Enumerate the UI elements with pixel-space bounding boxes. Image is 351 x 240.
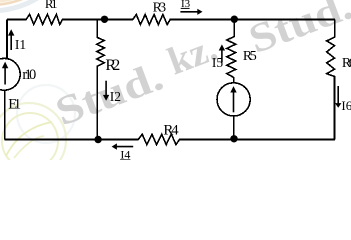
svg-text:I1: I1 bbox=[15, 37, 26, 52]
svg-text:r10: r10 bbox=[22, 67, 36, 83]
svg-text:R4: R4 bbox=[163, 122, 179, 138]
svg-text:I2: I2 bbox=[110, 89, 121, 104]
svg-text:R6: R6 bbox=[342, 56, 351, 71]
svg-text:R1: R1 bbox=[45, 0, 58, 11]
svg-text:I6: I6 bbox=[341, 98, 351, 113]
svg-text:E1: E1 bbox=[8, 97, 21, 113]
svg-text:I4: I4 bbox=[120, 147, 130, 160]
svg-text:R3: R3 bbox=[153, 1, 167, 16]
svg-text:R5: R5 bbox=[243, 49, 257, 64]
svg-text:I5: I5 bbox=[212, 55, 223, 70]
svg-text:R2: R2 bbox=[105, 57, 120, 74]
